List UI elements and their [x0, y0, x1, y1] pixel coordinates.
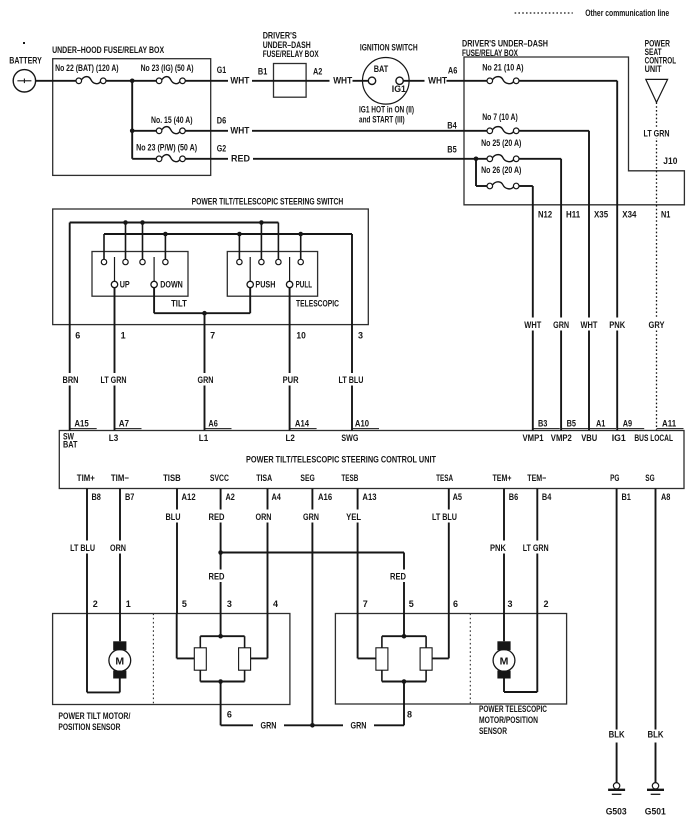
svg-text:A14: A14 [295, 419, 309, 429]
svg-text:6: 6 [75, 331, 80, 341]
svg-text:5: 5 [182, 599, 187, 609]
svg-text:A2: A2 [226, 492, 235, 502]
svg-text:WHT: WHT [333, 75, 352, 85]
svg-text:G501: G501 [645, 807, 666, 817]
svg-text:ORN: ORN [110, 543, 126, 553]
svg-text:B7: B7 [125, 492, 134, 502]
svg-text:A16: A16 [318, 492, 332, 502]
svg-text:No 23 (P/W) (50 A): No 23 (P/W) (50 A) [136, 143, 197, 153]
svg-text:4: 4 [273, 599, 278, 609]
svg-text:A2: A2 [313, 67, 322, 77]
svg-text:No 23 (IG) (50 A): No 23 (IG) (50 A) [141, 63, 194, 73]
svg-text:6: 6 [227, 710, 232, 720]
svg-text:A6: A6 [448, 66, 457, 76]
svg-text:BLK: BLK [648, 730, 664, 740]
svg-text:ORN: ORN [256, 512, 272, 522]
svg-text:X35: X35 [594, 210, 608, 220]
svg-text:B1: B1 [258, 67, 267, 77]
svg-text:B8: B8 [92, 492, 101, 502]
svg-text:LT BLU: LT BLU [432, 512, 457, 522]
svg-text:TILT: TILT [171, 299, 187, 309]
svg-text:BLK: BLK [609, 730, 625, 740]
svg-text:A5: A5 [453, 492, 462, 502]
svg-text:LT BLU: LT BLU [70, 543, 95, 553]
svg-text:No 25 (20 A): No 25 (20 A) [481, 138, 521, 148]
svg-text:N1: N1 [661, 210, 670, 220]
svg-text:TIM+: TIM+ [77, 473, 95, 483]
svg-text:A1: A1 [596, 419, 605, 429]
svg-text:B4: B4 [542, 492, 551, 502]
svg-text:G503: G503 [606, 807, 627, 817]
svg-text:BATTERY: BATTERY [9, 56, 42, 66]
svg-text:VBU: VBU [581, 433, 597, 443]
svg-text:IG1: IG1 [612, 433, 626, 443]
svg-text:TESB: TESB [341, 473, 358, 483]
svg-text:No. 15 (40 A): No. 15 (40 A) [151, 115, 193, 125]
svg-text:B5: B5 [567, 419, 576, 429]
svg-text:IG1 HOT in ON (II): IG1 HOT in ON (II) [359, 105, 414, 115]
svg-text:G2: G2 [217, 144, 226, 154]
svg-text:GRN: GRN [303, 512, 319, 522]
svg-text:A9: A9 [623, 419, 632, 429]
svg-text:H11: H11 [566, 210, 580, 220]
svg-text:10: 10 [296, 331, 305, 341]
svg-text:PUR: PUR [283, 375, 299, 385]
svg-text:TIM−: TIM− [111, 473, 129, 483]
svg-text:BRN: BRN [63, 375, 79, 385]
svg-text:RED: RED [390, 572, 406, 582]
svg-text:PG: PG [610, 473, 619, 483]
svg-text:SEG: SEG [300, 473, 314, 483]
svg-text:WHT: WHT [581, 320, 598, 330]
svg-text:GRN: GRN [261, 721, 277, 731]
svg-text:TEM+: TEM+ [493, 473, 512, 483]
svg-text:LT GRN: LT GRN [101, 375, 127, 385]
svg-text:B4: B4 [447, 121, 456, 131]
svg-text:B6: B6 [509, 492, 518, 502]
svg-text:PNK: PNK [609, 320, 625, 330]
svg-text:SVCC: SVCC [210, 473, 229, 483]
svg-text:VMP1: VMP1 [523, 433, 544, 443]
svg-text:POWER TILT MOTOR/: POWER TILT MOTOR/ [58, 711, 130, 721]
svg-text:3: 3 [227, 599, 232, 609]
svg-text:L2: L2 [286, 433, 295, 443]
svg-text:PUSH: PUSH [255, 279, 275, 289]
svg-text:TELESCOPIC: TELESCOPIC [296, 299, 339, 309]
svg-text:6: 6 [453, 599, 458, 609]
svg-text:LT BLU: LT BLU [339, 375, 364, 385]
svg-text:2: 2 [544, 599, 549, 609]
svg-text:YEL: YEL [346, 512, 361, 522]
svg-text:A4: A4 [272, 492, 281, 502]
svg-text:MOTOR/POSITION: MOTOR/POSITION [479, 715, 538, 725]
svg-text:PNK: PNK [490, 543, 506, 553]
svg-text:GRN: GRN [198, 375, 214, 385]
svg-text:2: 2 [93, 599, 98, 609]
svg-text:No 7 (10 A): No 7 (10 A) [482, 112, 518, 122]
svg-text:BUS LOCAL: BUS LOCAL [634, 433, 673, 443]
svg-text:FUSE/RELAY BOX: FUSE/RELAY BOX [462, 48, 518, 58]
svg-text:IGNITION SWITCH: IGNITION SWITCH [360, 42, 418, 52]
svg-text:A12: A12 [182, 492, 196, 502]
svg-text:POWER TILT/TELESCOPIC STEERING: POWER TILT/TELESCOPIC STEERING SWITCH [192, 197, 344, 207]
svg-text:GRN: GRN [351, 721, 367, 731]
svg-text:TESA: TESA [436, 473, 453, 483]
svg-text:3: 3 [358, 331, 363, 341]
svg-text:A13: A13 [362, 492, 376, 502]
svg-text:WHT: WHT [428, 75, 447, 85]
svg-text:GRN: GRN [553, 320, 569, 330]
svg-text:FUSE/RELAY BOX: FUSE/RELAY BOX [263, 49, 319, 59]
svg-text:DOWN: DOWN [160, 279, 183, 289]
svg-text:WHT: WHT [230, 125, 249, 135]
svg-text:LT GRN: LT GRN [644, 128, 670, 138]
svg-text:POSITION SENSOR: POSITION SENSOR [58, 722, 120, 732]
svg-text:SWG: SWG [341, 433, 358, 443]
svg-text:B1: B1 [622, 492, 631, 502]
svg-text:L1: L1 [199, 433, 208, 443]
svg-text:POWER TILT/TELESCOPIC STEERING: POWER TILT/TELESCOPIC STEERING CONTROL U… [246, 455, 436, 465]
svg-text:7: 7 [210, 331, 215, 341]
svg-text:5: 5 [409, 599, 414, 609]
svg-text:7: 7 [363, 599, 368, 609]
svg-text:A8: A8 [661, 492, 670, 502]
svg-text:8: 8 [407, 710, 412, 720]
svg-text:A6: A6 [208, 419, 217, 429]
svg-text:B5: B5 [447, 145, 456, 155]
svg-text:and START (III): and START (III) [359, 115, 405, 125]
svg-text:No 21 (10 A): No 21 (10 A) [482, 62, 523, 72]
svg-text:X34: X34 [622, 210, 636, 220]
svg-text:3: 3 [508, 599, 513, 609]
svg-text:M: M [500, 655, 509, 667]
svg-text:RED: RED [209, 512, 225, 522]
svg-text:TEM−: TEM− [527, 473, 546, 483]
svg-text:1: 1 [121, 331, 126, 341]
svg-text:RED: RED [209, 572, 225, 582]
svg-text:WHT: WHT [230, 75, 249, 85]
svg-text:N12: N12 [538, 210, 552, 220]
svg-text:UNIT: UNIT [645, 64, 662, 74]
svg-text:TISA: TISA [256, 473, 272, 483]
svg-text:A15: A15 [74, 419, 88, 429]
svg-text:BAT: BAT [63, 440, 78, 450]
svg-text:LT GRN: LT GRN [523, 543, 549, 553]
svg-text:WHT: WHT [524, 320, 541, 330]
svg-text:1: 1 [126, 599, 131, 609]
svg-text:No 22 (BAT) (120 A): No 22 (BAT) (120 A) [55, 63, 119, 73]
svg-text:B3: B3 [538, 419, 547, 429]
svg-text:SENSOR: SENSOR [479, 726, 507, 736]
svg-text:BAT: BAT [374, 64, 389, 74]
svg-text:UNDER–HOOD FUSE/RELAY BOX: UNDER–HOOD FUSE/RELAY BOX [52, 45, 164, 55]
svg-text:J10: J10 [663, 156, 677, 166]
svg-text:No 26 (20 A): No 26 (20 A) [481, 165, 521, 175]
svg-text:A10: A10 [355, 419, 369, 429]
svg-text:Other communication line: Other communication line [585, 8, 669, 18]
svg-text:L3: L3 [109, 433, 118, 443]
svg-text:GRY: GRY [649, 320, 665, 330]
svg-text:M: M [115, 655, 124, 667]
svg-text:A7: A7 [119, 419, 129, 429]
svg-text:BLU: BLU [166, 512, 181, 522]
svg-text:TISB: TISB [163, 473, 181, 483]
svg-text:RED: RED [231, 153, 250, 163]
svg-text:VMP2: VMP2 [551, 433, 572, 443]
svg-text:G1: G1 [217, 65, 226, 75]
svg-text:POWER TELESCOPIC: POWER TELESCOPIC [479, 704, 547, 714]
svg-text:UP: UP [120, 279, 130, 289]
svg-text:IG1: IG1 [392, 84, 406, 94]
svg-text:A11: A11 [662, 419, 676, 429]
svg-text:PULL: PULL [296, 279, 313, 289]
svg-text:SG: SG [645, 473, 654, 483]
svg-text:D6: D6 [217, 116, 226, 126]
